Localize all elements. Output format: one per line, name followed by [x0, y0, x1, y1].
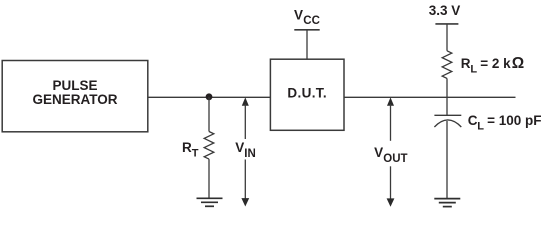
svg-text:R: R: [461, 56, 471, 71]
label RL = 2 kOhm: [461, 55, 524, 75]
node: input junction dot: [206, 93, 213, 100]
VCC supply rail symbol: [294, 30, 319, 59]
svg-text:V: V: [235, 140, 244, 155]
ground (below RT): [197, 198, 223, 206]
wire: pulse generator output to D.U.T. input: [148, 96, 271, 98]
svg-text:PULSE: PULSE: [52, 78, 97, 93]
label PULSE GENERATOR: [32, 78, 117, 107]
svg-text:L: L: [477, 120, 484, 132]
label RT: [182, 140, 199, 160]
wire: junction down to RT: [208, 97, 210, 132]
ground (below CL): [434, 199, 460, 207]
svg-text:Ω: Ω: [512, 55, 524, 72]
svg-text:V: V: [294, 7, 303, 22]
pulse generator box: [2, 61, 148, 132]
3.3 V supply rail symbol: [435, 24, 458, 51]
svg-text:D.U.T.: D.U.T.: [287, 86, 327, 101]
wire: RL down through output node to capacitor: [446, 78, 448, 115]
svg-text:GENERATOR: GENERATOR: [32, 92, 117, 107]
VIN measurement arrow (double-headed): [241, 97, 249, 206]
label VOUT: [374, 145, 407, 165]
wire: capacitor down to ground: [446, 121, 448, 198]
svg-text:T: T: [192, 148, 199, 160]
svg-text:V: V: [374, 145, 383, 160]
svg-text:R: R: [182, 140, 192, 155]
label CL = 100 pF: [468, 113, 542, 133]
svg-text:OUT: OUT: [383, 153, 407, 165]
wire: D.U.T. output to load node: [344, 96, 516, 98]
wire: RT down to ground: [208, 159, 210, 198]
resistor RT: [204, 132, 214, 160]
D.U.T. box U1: [270, 59, 344, 130]
svg-text:L: L: [470, 63, 477, 75]
label VCC: [294, 7, 320, 27]
svg-text:CC: CC: [303, 15, 320, 27]
label VIN: [235, 140, 256, 160]
svg-text:C: C: [468, 113, 478, 128]
svg-text:IN: IN: [244, 148, 256, 160]
VOUT measurement arrow (double-headed): [387, 97, 395, 206]
svg-text:= 100 pF: = 100 pF: [487, 113, 541, 128]
svg-text:3.3 V: 3.3 V: [429, 3, 461, 18]
capacitor CL: [434, 115, 461, 127]
svg-text:= 2 k: = 2 k: [480, 56, 511, 71]
resistor RL: [442, 51, 452, 79]
